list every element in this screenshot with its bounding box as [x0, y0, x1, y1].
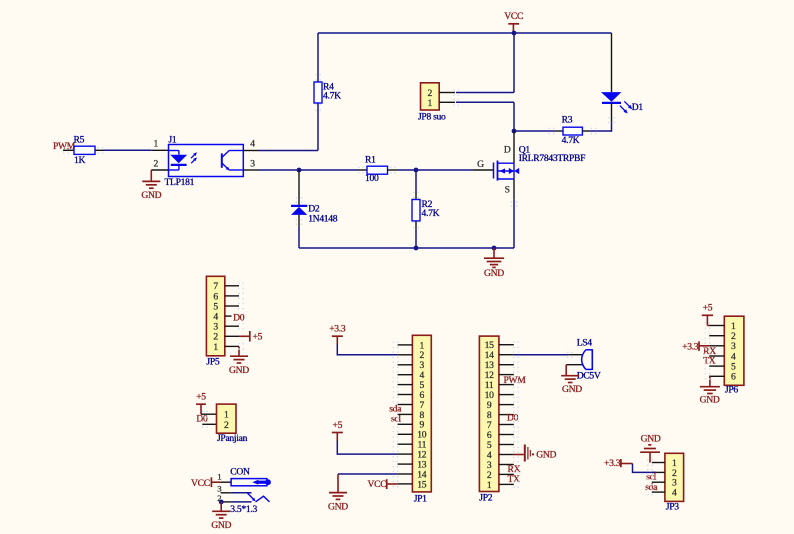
- ground at JP5: [238, 346, 240, 356]
- svg-text:J1: J1: [169, 135, 177, 146]
- ground at J1 pin2: [150, 170, 152, 181]
- power +5 at JP1: [332, 432, 343, 434]
- pin 10 of JP1: [398, 433, 413, 435]
- svg-text:IRLR7843TRPBF: IRLR7843TRPBF: [519, 153, 585, 164]
- svg-text:3.5*1.3: 3.5*1.3: [230, 504, 257, 515]
- pin 1 of CON: [221, 481, 232, 483]
- svg-text:+3.3: +3.3: [604, 458, 621, 469]
- pin 8 of JP1: [398, 413, 413, 415]
- pin 2 of JP5 with +5: [225, 335, 239, 337]
- transistor Q1 source pin: [513, 179, 515, 200]
- pin 7 of JP2: [499, 424, 514, 426]
- svg-text:+5: +5: [332, 420, 342, 431]
- pin 5 of JP5: [225, 305, 239, 307]
- wire JP8 pin1 to drain node: [456, 101, 514, 103]
- svg-text:PWM: PWM: [53, 141, 76, 152]
- pin 11 of JP1: [398, 443, 413, 445]
- pin 2 of JP6: [709, 335, 724, 337]
- pin 15 of JP1: [398, 483, 413, 485]
- svg-text:100: 100: [365, 173, 379, 184]
- svg-text:JP1: JP1: [414, 494, 427, 505]
- junction drain node: [512, 129, 517, 134]
- pin 5 of JP1: [398, 384, 413, 386]
- svg-text:1: 1: [154, 139, 159, 150]
- svg-text:GND: GND: [211, 520, 231, 531]
- svg-text:4: 4: [250, 139, 255, 150]
- svg-text:R5: R5: [74, 135, 85, 146]
- svg-text:VCC: VCC: [368, 479, 387, 490]
- svg-text:2: 2: [224, 420, 229, 431]
- wire drain node to R3: [514, 130, 555, 132]
- wire JP1 pin14 to ground: [338, 473, 398, 475]
- svg-text:VCC: VCC: [504, 11, 523, 22]
- wire D2 to ground rail: [298, 227, 300, 248]
- svg-text:TLP181: TLP181: [165, 177, 195, 188]
- ground at JP1: [337, 474, 339, 493]
- pin 14 of JP1: [398, 473, 413, 475]
- svg-text:GND: GND: [229, 365, 249, 376]
- svg-text:GND: GND: [536, 449, 556, 460]
- svg-text:2: 2: [154, 158, 159, 169]
- connector JP5: [206, 276, 224, 356]
- svg-text:+5: +5: [703, 303, 713, 314]
- svg-text:GND: GND: [700, 395, 720, 406]
- svg-text:1K: 1K: [74, 155, 85, 166]
- pin 1 of JPanjian: [201, 413, 217, 415]
- connector JP8: [421, 83, 440, 110]
- pin 1 of J1: [151, 149, 168, 151]
- connector JP6: [724, 316, 744, 385]
- pin 4 of JP6: [709, 355, 724, 357]
- pin 6 of JP5: [225, 295, 239, 297]
- pin 9 of JP2: [499, 404, 514, 406]
- svg-text:4.7K: 4.7K: [323, 90, 341, 101]
- wire +3.3 to JP1 pin2: [337, 344, 397, 355]
- pin 4 of JP3: [652, 491, 665, 493]
- svg-text:+5: +5: [253, 331, 263, 342]
- svg-text:GND: GND: [641, 434, 661, 445]
- pin 3 of JP3: [652, 481, 665, 483]
- junction R2 top: [414, 168, 419, 173]
- svg-text:1: 1: [217, 472, 221, 482]
- pin 4 of JP1: [398, 374, 413, 376]
- svg-text:JP3: JP3: [666, 502, 679, 513]
- ground at JP2 pin4: [514, 454, 524, 456]
- transistor Q1 drain pin: [513, 131, 515, 163]
- J1 phototransistor: [221, 153, 223, 167]
- svg-text:+3.3: +3.3: [329, 324, 346, 335]
- transistor Q1 MOSFET symbol: [493, 163, 495, 179]
- wire +3.3 to JP3 pin2: [633, 464, 657, 473]
- svg-text:D0: D0: [196, 413, 208, 424]
- svg-text:JP6: JP6: [725, 385, 738, 396]
- junction CON ground: [219, 500, 224, 505]
- pin 1 of JP5 to ground: [225, 345, 239, 347]
- ground below Q1: [493, 248, 495, 258]
- wire VCC rail top: [318, 32, 612, 34]
- wire R4 to VCC rail: [317, 33, 319, 82]
- svg-text:+5: +5: [196, 392, 206, 403]
- junction ground stub: [492, 246, 497, 251]
- svg-text:PWM: PWM: [504, 375, 527, 386]
- pin 2 of JP2: [499, 473, 514, 475]
- ground at LS4: [565, 365, 567, 376]
- svg-text:4.7K: 4.7K: [562, 135, 580, 146]
- svg-text:CON: CON: [230, 467, 250, 478]
- svg-text:15: 15: [417, 479, 426, 490]
- diode D2: [298, 170, 300, 206]
- pin 7 of JP5: [225, 285, 239, 287]
- connector JP1: [412, 335, 431, 492]
- svg-text:sda: sda: [645, 482, 658, 493]
- svg-text:1: 1: [487, 480, 492, 491]
- resistor R4: [314, 82, 322, 103]
- svg-text:TX: TX: [508, 474, 521, 485]
- svg-text:6: 6: [731, 372, 736, 383]
- pin 2 of J1: [151, 169, 168, 171]
- CON switch contact: [231, 492, 251, 494]
- wire R1 to gate: [397, 169, 472, 171]
- pin 4 of JP5: [225, 315, 232, 317]
- svg-text:R1: R1: [365, 155, 376, 166]
- wire PWM lead to R5: [63, 149, 74, 151]
- connector JP2: [479, 336, 499, 491]
- pin 3 of JP5: [225, 325, 239, 327]
- svg-text:DC5V: DC5V: [577, 371, 601, 382]
- svg-text:scl: scl: [391, 414, 401, 425]
- pin 4 of JP2: [499, 454, 514, 456]
- svg-text:GND: GND: [562, 384, 582, 395]
- svg-text:TX: TX: [703, 355, 716, 366]
- svg-text:R3: R3: [562, 115, 573, 126]
- D1 emission arrows: [624, 101, 630, 107]
- junction D2 top: [297, 168, 302, 173]
- pin 1 of JP6: [709, 325, 724, 327]
- wire gate to Q1: [472, 169, 493, 171]
- svg-text:G: G: [477, 159, 484, 170]
- ground at CON: [220, 502, 222, 511]
- pin 12 of JP2: [499, 374, 514, 376]
- wire J1 pin4 to R4: [259, 150, 319, 152]
- pin 13 of JP2: [499, 364, 514, 366]
- pin 8 of JP2: [499, 414, 514, 416]
- svg-text:1: 1: [213, 342, 218, 353]
- pin 5 of JP6: [709, 365, 724, 367]
- wire +5 to JP1 pin12: [337, 441, 397, 455]
- resistor R2: [415, 170, 417, 192]
- pin 15 of JP2: [499, 344, 514, 346]
- pin 3 of JP1: [398, 364, 413, 366]
- wire ground rail: [299, 247, 514, 249]
- pin 2 of JP3: [652, 471, 665, 473]
- pin 1 of JP3: [652, 462, 665, 464]
- svg-text:D1: D1: [632, 102, 644, 113]
- resistor R5: [74, 146, 95, 154]
- pin 11 of JP2: [499, 384, 514, 386]
- svg-text:1: 1: [428, 98, 433, 109]
- J1 internal LED: [169, 150, 179, 152]
- svg-text:JP5: JP5: [206, 357, 219, 368]
- pin 6 of JP2: [499, 434, 514, 436]
- pin 3 of J1: [243, 169, 258, 171]
- pin 3 of JP6: [709, 345, 724, 347]
- pin 2 of JPanjian: [202, 423, 216, 425]
- wire R2 to ground rail: [415, 229, 417, 248]
- pin 5 of JP2: [499, 444, 514, 446]
- junction R2 bottom: [414, 246, 419, 251]
- resistor R1: [367, 166, 388, 174]
- pin 12 of JP1: [398, 453, 413, 455]
- svg-text:S: S: [505, 185, 510, 196]
- wire R5 to J1 pin1: [104, 149, 151, 151]
- wire JP2 pin14 to buzzer LS4: [514, 354, 569, 356]
- svg-text:JP2: JP2: [479, 493, 492, 504]
- svg-text:4: 4: [672, 488, 677, 499]
- power +3.3 at JP1: [332, 335, 343, 337]
- svg-text:VCC: VCC: [191, 478, 210, 489]
- wire VCC to JP8 pin2: [513, 33, 515, 93]
- svg-text:3: 3: [250, 158, 255, 169]
- power +5 at JP6: [702, 314, 713, 316]
- svg-text:JP8 suo: JP8 suo: [418, 112, 446, 123]
- svg-text:+3.3: +3.3: [682, 341, 699, 352]
- svg-text:GND: GND: [484, 268, 504, 279]
- svg-text:LS4: LS4: [577, 338, 593, 349]
- power VCC: [508, 23, 519, 25]
- pin 13 of JP1: [398, 463, 413, 465]
- svg-text:GND: GND: [328, 501, 348, 512]
- pin 14 of JP2: [499, 354, 514, 356]
- CON jack plug: [252, 480, 258, 485]
- wire source down to ground rail: [513, 200, 515, 248]
- svg-text:4.7K: 4.7K: [422, 208, 440, 219]
- pin 2 of JP1: [398, 354, 413, 356]
- pin 6 of JP6: [709, 375, 724, 377]
- LED D1: [611, 33, 613, 92]
- svg-text:GND: GND: [141, 190, 161, 201]
- svg-text:D: D: [504, 145, 511, 156]
- pin 1 of JP2: [499, 483, 514, 485]
- svg-text:JPanjian: JPanjian: [217, 433, 248, 444]
- wire main gate net: [259, 169, 358, 171]
- pin 3 of JP2: [499, 464, 514, 466]
- junction VCC rail: [512, 31, 517, 36]
- CON jack body: [231, 479, 267, 486]
- connector JP3: [665, 453, 684, 501]
- power +5 at JPanjian: [196, 403, 206, 405]
- op-coupler J1 body: [169, 145, 244, 177]
- pin 9 of JP1: [398, 423, 413, 425]
- pin 6 of JP1: [398, 394, 413, 396]
- pin 4 of J1: [243, 150, 258, 152]
- svg-text:D0: D0: [233, 312, 245, 323]
- ground at JP6 pin6: [709, 376, 711, 386]
- wire R3 to D1: [590, 130, 612, 132]
- pin 1 of JP1: [398, 344, 413, 346]
- resistor R3: [563, 127, 582, 135]
- pin 10 of JP2: [499, 394, 514, 396]
- svg-text:1N4148: 1N4148: [308, 213, 338, 224]
- J1 LED emission arrows: [191, 154, 196, 159]
- buzzer LS4: [568, 354, 582, 356]
- svg-text:D0: D0: [507, 412, 519, 423]
- pin 7 of JP1: [398, 404, 413, 406]
- Q1 body diode mark: [509, 168, 514, 174]
- grid hotspot markers: [238, 282, 240, 284]
